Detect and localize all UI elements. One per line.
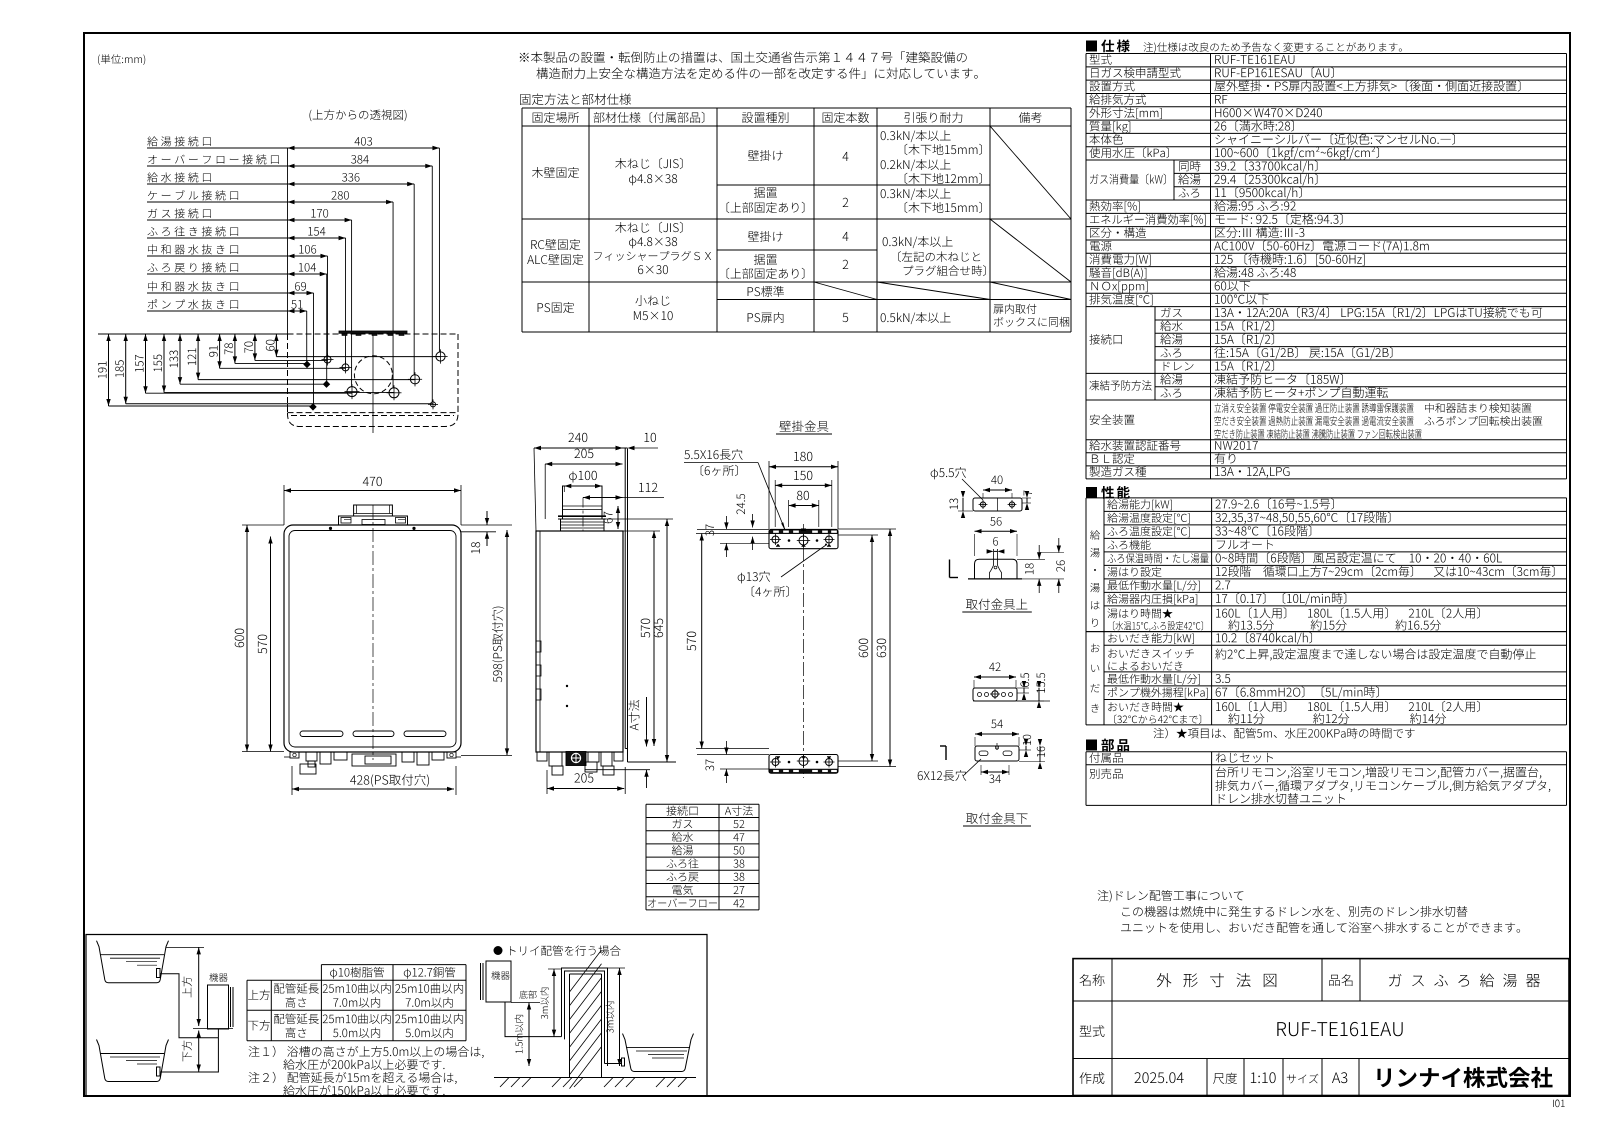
fitting2 26 dim — [1058, 538, 1060, 553]
sheet number I01 — [1553, 1100, 1565, 1108]
datum mark upper — [949, 560, 951, 578]
front view 18 dim (top right) — [461, 524, 512, 526]
pipe from unit — [505, 1003, 562, 1037]
side view flue pipe — [563, 486, 603, 519]
lower bath tub — [97, 1040, 169, 1082]
upper fitting plate 1 — [973, 498, 1022, 511]
front view 428(PS取付穴) dim — [291, 766, 293, 795]
screw dots on top edge — [329, 527, 332, 530]
fitting2 center notch — [993, 549, 995, 565]
bracket 600 dim — [871, 535, 873, 761]
side view 67 dim — [617, 506, 619, 529]
top view centerline — [372, 334, 374, 433]
performance footnote — [1154, 728, 1415, 739]
side view 645 dim — [666, 519, 668, 762]
torii pipe up-over-down — [562, 968, 608, 1066]
water heater unit (機器) — [209, 973, 227, 982]
bracket 630 dim — [889, 529, 891, 767]
datum mark lower — [945, 746, 947, 760]
slot label 5.5X16長穴(6ヶ所) — [684, 449, 742, 460]
下方 dimension — [198, 1031, 200, 1072]
spec table values — [1215, 55, 1294, 64]
parts section header ■部品 — [1086, 740, 1097, 751]
top view of unit (dashed outline) — [288, 333, 459, 335]
fixing table title 固定方法と部材仕様 — [520, 94, 631, 105]
bracket 150 dim — [774, 480, 776, 527]
fitting2 56 dim — [975, 530, 1018, 532]
side view 240 dim — [534, 448, 536, 531]
performance values — [1215, 498, 1333, 509]
side view 205 dim — [544, 464, 546, 519]
bracket 570 dim — [701, 534, 703, 749]
flue opening (dashed circle) — [354, 356, 392, 394]
unit label (単位:mm) — [98, 54, 145, 65]
bracket 37 dim top — [697, 528, 769, 530]
side view φ100 dim — [564, 485, 602, 487]
bracket 24.5 dim — [752, 514, 754, 528]
side bottom fittings — [537, 752, 547, 761]
slot label 6X12長穴 — [918, 770, 967, 781]
fitting4 16 dim — [1039, 746, 1041, 762]
A-dimension table — [646, 803, 759, 805]
side view body — [536, 531, 623, 752]
depth dimensions (left vertical) — [108, 334, 110, 406]
piping length table — [321, 964, 466, 966]
spec table left labels — [1090, 54, 1112, 64]
piping to lower tub — [160, 1038, 218, 1072]
front view 598(PS取付穴) dim — [506, 530, 508, 755]
front view body — [284, 525, 461, 752]
fixing table texts — [533, 112, 579, 123]
performance table grid — [1086, 497, 1567, 499]
bracket centerline — [803, 524, 805, 778]
fixing method table — [522, 107, 1071, 109]
front bottom fittings — [290, 752, 299, 758]
ground line and hatching — [494, 1077, 696, 1079]
upper fitting plate 2 — [975, 559, 1018, 579]
fitting1 7 dim — [1026, 498, 1028, 503]
bracket 80 dim — [788, 500, 790, 527]
label φ5.5穴 — [931, 467, 966, 479]
wall bracket title 壁掛金具 — [779, 421, 828, 432]
front view 470 width dim — [283, 485, 285, 525]
datum extension line — [287, 148, 289, 334]
底部 label — [519, 991, 536, 999]
lower fitting plate 4 — [975, 746, 1019, 761]
drain piping note — [1098, 890, 1244, 902]
title block row3 — [1080, 1072, 1105, 1084]
front panel inner outline — [289, 531, 456, 748]
fitting1 40 dim — [983, 489, 1012, 491]
hole label φ13穴(4ヶ所) — [738, 571, 770, 583]
depth leader lines to ports — [109, 405, 314, 407]
wall bracket strip (top view) — [339, 331, 407, 333]
bottom louver slots — [300, 731, 343, 737]
fitting4 54 dim — [975, 733, 1019, 735]
torii unit box — [486, 961, 511, 1002]
parts table grid — [1086, 751, 1567, 753]
fitting1 13 dim — [962, 498, 964, 511]
side view 112 dim — [583, 497, 623, 499]
front view 570 dim — [270, 537, 272, 752]
bracket 37 dim bottom — [697, 754, 769, 756]
bracket top plate — [769, 529, 838, 548]
connection ports (top view) — [436, 352, 445, 361]
depth leader baseline — [98, 333, 288, 335]
right bath tub — [623, 1034, 694, 1072]
safety devices cell — [1214, 403, 1413, 413]
front view 600 height dim — [242, 524, 284, 526]
side view 205 bottom dim — [546, 770, 548, 794]
mounting wall line — [624, 449, 626, 749]
fitting2 6 dim — [994, 550, 998, 552]
fitting4 34 dim — [981, 771, 1009, 773]
torii piping title — [494, 946, 503, 955]
front panel curve (dashed) — [288, 404, 459, 427]
piping diagram box — [86, 935, 707, 1096]
title block frame — [1073, 959, 1569, 1096]
3m以内 dim (left) — [553, 969, 555, 1037]
title block row1 — [1080, 974, 1105, 986]
3m以内 dim (right) — [619, 968, 621, 1066]
fitting3 6.5 dim — [1023, 688, 1025, 693]
bracket 180 dim — [768, 461, 770, 529]
side view A寸法 dim — [585, 769, 650, 771]
fitting4 10 dim — [1025, 746, 1027, 750]
upper bath tub — [97, 941, 169, 983]
performance section header ■性能 — [1086, 487, 1097, 498]
spec section header ■仕様 — [1086, 41, 1097, 52]
lower fitting plate 3 — [973, 688, 1017, 701]
front view centerline (dash-dot) — [372, 505, 374, 760]
side view louver marks (left edge) — [536, 641, 541, 652]
performance labels — [1107, 499, 1172, 510]
title block row2 型式 — [1080, 1025, 1105, 1037]
bracket bottom plate — [769, 755, 838, 774]
fitting3 15.5 dim — [1038, 688, 1040, 701]
fitting3 42 dim — [974, 676, 1016, 678]
1.5m以内 dim — [528, 1003, 530, 1067]
remark cell diagonals — [990, 126, 1071, 219]
front view top exhaust stack — [354, 505, 393, 516]
piping from upper tub — [160, 974, 218, 1038]
fitting2 18 dim — [1038, 545, 1040, 559]
side view 570 dim — [653, 531, 655, 746]
connection port labels and horizontal position dimensions — [147, 136, 211, 146]
spec table grid — [1086, 53, 1567, 55]
title (上方からの透視図) — [309, 109, 406, 121]
piping notes — [249, 1046, 484, 1058]
regulation note — [520, 52, 967, 64]
group labels (vertical) — [1090, 530, 1100, 540]
side view 10 dim — [623, 447, 628, 449]
上方 dimension — [198, 947, 200, 1026]
wall with hatching — [569, 974, 571, 1078]
